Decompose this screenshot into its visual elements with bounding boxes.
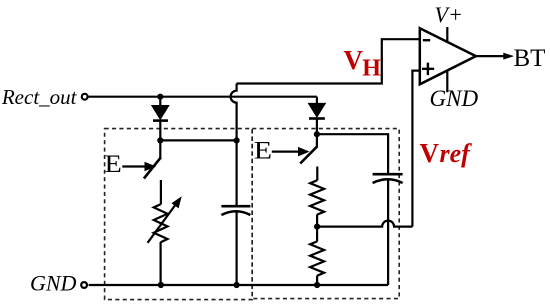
svg-text:GND: GND — [430, 86, 479, 111]
svg-text:E: E — [254, 138, 272, 165]
svg-text:GND: GND — [30, 270, 77, 295]
wire GND rail — [89, 284, 389, 286]
variable resistor R1 — [154, 204, 168, 242]
wire VH top run — [237, 39, 420, 83]
transistor Q2 emitter stub — [316, 167, 318, 181]
svg-text:H: H — [362, 55, 381, 81]
wire C1 bottom lead — [236, 213, 238, 286]
op-amp U1 minus mark — [423, 39, 430, 41]
terminal GND — [81, 282, 87, 288]
wire node to R3 — [316, 227, 318, 242]
wire left diode drop — [159, 97, 161, 107]
capacitor C1 curved plate — [221, 211, 250, 215]
svg-text:V: V — [344, 45, 364, 75]
wire R1 bottom lead — [160, 242, 162, 285]
svg-text:V: V — [420, 138, 440, 168]
svg-text:ref: ref — [440, 139, 473, 168]
resistor R3 — [310, 241, 324, 275]
arrow E1 — [122, 165, 146, 167]
arrow E2 — [272, 151, 300, 153]
node C1/GND — [234, 282, 240, 288]
node R1/GND — [158, 282, 164, 288]
node C1 top — [234, 137, 240, 143]
node R3/GND — [314, 282, 320, 288]
transistor Q1 collector stub — [159, 140, 161, 158]
transistor Q1 emitter stub — [160, 180, 162, 205]
svg-text:Rect_out: Rect_out — [1, 85, 78, 109]
wire Vref riser to op-amp plus — [412, 71, 419, 227]
terminal Rect_out — [82, 94, 88, 100]
arrow output — [503, 53, 514, 60]
op-amp U1 body — [420, 28, 476, 84]
transistor Q2 bar — [300, 146, 317, 163]
wire C2 bottom to GND rail — [387, 181, 389, 286]
wire node row left — [160, 139, 236, 141]
wire R2 to node — [316, 214, 318, 226]
node Rect_out/D1 — [157, 94, 163, 100]
arrow R1 adjustment — [148, 204, 176, 243]
wire VH riser with hop over Rect_out — [231, 84, 237, 207]
svg-text:V+: V+ — [435, 2, 463, 27]
diode D1 — [152, 106, 168, 119]
node D2/Q2 — [314, 131, 320, 137]
capacitor C2 curved plate — [373, 179, 403, 183]
node D1/Q1 — [157, 137, 163, 143]
op-amp U1 V+ pin — [446, 27, 448, 42]
dashed box right (reference cell) — [252, 129, 399, 299]
wire right diode drop — [316, 97, 318, 106]
wire right node row to C2 — [317, 134, 388, 174]
capacitor C1 top plate — [221, 205, 250, 208]
wire output — [476, 55, 504, 57]
op-amp U1 plus mark — [422, 63, 434, 76]
svg-text:E: E — [105, 151, 122, 178]
wire Rect_out horizontal — [89, 96, 317, 98]
node R2/R3 divider — [314, 224, 320, 230]
wire right diode to node — [316, 118, 318, 134]
transistor Q1 bar — [144, 157, 161, 178]
op-amp U1 GND pin — [446, 71, 448, 93]
svg-text:BT: BT — [514, 45, 546, 72]
diode D2 — [309, 104, 325, 117]
wire Vref run with hop over C2 lead — [317, 221, 412, 227]
capacitor C2 top plate — [373, 173, 403, 176]
wire R3 bottom lead — [316, 276, 318, 286]
dashed box left (variable-resistor cell) — [105, 129, 253, 300]
transistor Q2 collector stub — [316, 134, 318, 147]
resistor R2 — [310, 180, 324, 214]
wire left diode to node — [159, 120, 161, 141]
